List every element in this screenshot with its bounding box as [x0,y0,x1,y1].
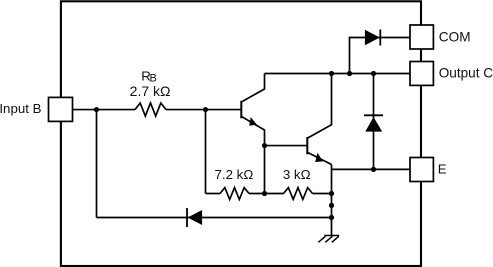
svg-text:Output C: Output C [439,65,493,80]
svg-text:2.7 kΩ: 2.7 kΩ [130,83,171,99]
svg-text:E: E [438,162,447,177]
svg-text:3 kΩ: 3 kΩ [283,167,311,182]
svg-text:7.2 kΩ: 7.2 kΩ [215,167,254,182]
svg-text:Input B: Input B [0,101,42,116]
svg-text:COM: COM [439,30,471,45]
